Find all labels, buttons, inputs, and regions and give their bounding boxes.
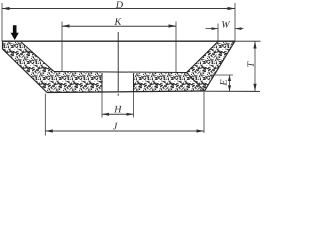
W left extension line bbox=[217, 24, 219, 42]
hub bottom edge bbox=[47, 91, 204, 93]
E top arrowhead bbox=[228, 75, 231, 81]
bore hole right edge bbox=[133, 73, 135, 92]
D left extension line bbox=[1, 3, 3, 41]
label H bbox=[114, 106, 122, 113]
J left extension line bbox=[44, 94, 46, 136]
K left arrowhead bbox=[62, 24, 70, 27]
J left arrowhead bbox=[45, 129, 53, 132]
E bottom arrowhead bbox=[228, 85, 231, 91]
label E (rotated) bbox=[220, 80, 227, 86]
left inner slant edge bbox=[20, 41, 54, 72]
dimension W left arrow bbox=[206, 28, 219, 30]
top face extension line to T bbox=[235, 40, 261, 42]
H left extension line bbox=[101, 93, 103, 118]
dimension H line bbox=[102, 113, 134, 115]
H right extension line bbox=[133, 92, 135, 117]
left rim vertical edge bbox=[2, 41, 4, 50]
label T (rotated) bbox=[247, 61, 254, 67]
D right arrowhead bbox=[228, 7, 236, 10]
centerline bbox=[117, 32, 119, 96]
K right extension line bbox=[175, 22, 177, 73]
wheel section right stipple fill bbox=[134, 41, 236, 92]
inner cone to back-face edge bbox=[187, 73, 205, 92]
dimension E line bbox=[229, 75, 231, 91]
label D bbox=[116, 1, 123, 8]
D/W right extension line bbox=[234, 3, 236, 41]
label K bbox=[114, 18, 121, 25]
right outer slant edge bbox=[205, 41, 236, 91]
dimension J line bbox=[45, 130, 204, 132]
J right extension line bbox=[203, 92, 205, 133]
H right arrowhead bbox=[127, 113, 134, 116]
solid black pointer arrow bbox=[11, 25, 19, 40]
D left arrowhead bbox=[2, 7, 10, 10]
dimension T line bbox=[254, 41, 256, 91]
right inner slant edge bbox=[187, 41, 219, 73]
T bottom arrowhead bbox=[253, 84, 256, 92]
label J bbox=[113, 123, 118, 130]
bore hole left edge bbox=[101, 73, 103, 92]
wheel section left stipple fill bbox=[3, 41, 103, 93]
E top extension line bbox=[211, 74, 233, 76]
T top arrowhead bbox=[253, 41, 256, 49]
J right arrowhead bbox=[197, 129, 205, 132]
dimension K line bbox=[62, 25, 176, 27]
dimension D line bbox=[2, 8, 235, 10]
dimension W right arrow bbox=[235, 28, 244, 30]
label W bbox=[222, 21, 230, 28]
K left extension line bbox=[61, 22, 63, 72]
K right arrowhead bbox=[169, 24, 177, 27]
hub bottom extension line to E,T bbox=[204, 90, 260, 92]
cup inside bottom edge bbox=[54, 72, 187, 73]
left outer slant edge bbox=[3, 49, 48, 93]
top face edge bbox=[3, 40, 236, 42]
H left arrowhead bbox=[102, 113, 109, 116]
